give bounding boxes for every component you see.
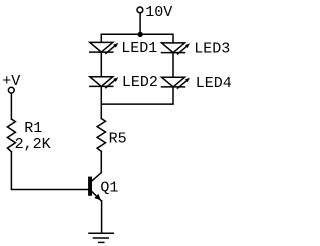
label R5 xyxy=(109,130,127,147)
svg-text:R1: R1 xyxy=(24,120,42,137)
wire: Q1 emitter to ground xyxy=(101,201,103,233)
svg-text:LED3: LED3 xyxy=(194,41,230,58)
svg-text:R5: R5 xyxy=(109,130,127,147)
ground xyxy=(89,233,113,242)
LED D4 (LED4) xyxy=(162,77,191,88)
wire: R5 to Q1 collector xyxy=(100,151,102,172)
wire: LED3 cathode to LED4 anode xyxy=(172,53,174,78)
terminal 10V (open circle) xyxy=(137,7,143,13)
wire: 10V terminal to top rail xyxy=(139,13,141,34)
svg-text:LED2: LED2 xyxy=(122,74,158,91)
label LED2 xyxy=(122,74,158,91)
transistor Q1 (NPN) xyxy=(88,173,101,201)
label LED3 xyxy=(194,41,230,58)
wire: bottom rail joining LED2 and LED4 cathodes xyxy=(101,87,173,104)
svg-text:LED1: LED1 xyxy=(121,40,157,57)
label +V xyxy=(2,73,20,90)
LED D2 (LED2) xyxy=(90,77,119,88)
label LED4 xyxy=(196,75,232,92)
resistor R5 xyxy=(97,119,105,152)
wire: LED1 cathode to LED2 anode xyxy=(100,52,102,77)
node: junction dot on top rail xyxy=(138,32,143,37)
resistor R1 xyxy=(7,119,15,152)
wire: R1 down and right to Q1 base xyxy=(11,152,88,190)
label LED1 xyxy=(121,40,157,57)
wire: +V terminal down to R1 xyxy=(10,93,12,119)
wire: top rail from LED1 column to LED3 column xyxy=(101,34,173,43)
label Q1 xyxy=(100,180,118,197)
label 10V xyxy=(145,4,172,21)
LED D1 (LED1) xyxy=(90,42,119,53)
svg-text:Q1: Q1 xyxy=(100,180,118,197)
svg-text:2,2K: 2,2K xyxy=(15,136,51,153)
value 2,2K xyxy=(15,136,51,153)
label R1 xyxy=(24,120,42,137)
terminal +V (open circle) xyxy=(8,87,14,93)
wire: LED2 cathode down to bottom rail xyxy=(100,86,102,104)
svg-text:10V: 10V xyxy=(145,4,172,21)
svg-text:+V: +V xyxy=(2,73,20,90)
svg-text:LED4: LED4 xyxy=(196,75,231,92)
wire: bottom rail to R5 xyxy=(100,104,102,118)
LED D3 (LED3) xyxy=(162,43,191,54)
